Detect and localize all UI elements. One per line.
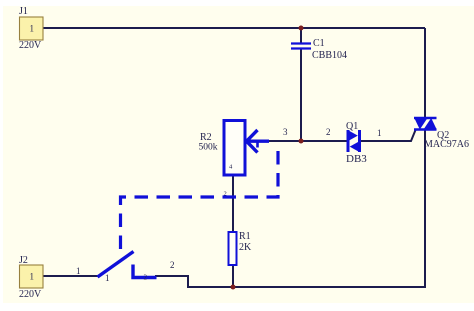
svg-text:3: 3 bbox=[283, 127, 288, 137]
wire C1 top lead bbox=[300, 28, 302, 43]
triac Q2 bbox=[414, 118, 437, 130]
svg-text:1: 1 bbox=[76, 266, 81, 276]
wire diac pin 1 to triac gate bbox=[359, 130, 416, 141]
capacitor C1 bbox=[291, 44, 311, 49]
switch right contact bbox=[133, 265, 157, 278]
wire right vertical to triac top bbox=[424, 28, 426, 118]
potentiometer R2 bbox=[224, 121, 269, 176]
wire R1 bottom to bottom rail bbox=[232, 264, 234, 287]
svg-text:MAC97A6: MAC97A6 bbox=[424, 139, 469, 150]
svg-text:J1: J1 bbox=[19, 6, 28, 17]
svg-text:R1: R1 bbox=[239, 231, 251, 242]
svg-text:1: 1 bbox=[30, 272, 35, 282]
junction top rail / C1 bbox=[299, 26, 304, 31]
svg-text:CBB104: CBB104 bbox=[312, 50, 347, 61]
svg-text:1: 1 bbox=[377, 128, 382, 138]
diac Q1 bbox=[348, 130, 360, 152]
connector J1 bbox=[20, 17, 44, 40]
svg-text:220V: 220V bbox=[19, 289, 42, 300]
wire triac bottom to bottom rail bbox=[424, 129, 426, 288]
switch S blade bbox=[98, 252, 134, 278]
junction gate net / C1 bbox=[299, 139, 304, 144]
wire C1 bottom lead to gate net bbox=[300, 49, 302, 141]
wire jog from switch level to bottom rail bbox=[187, 276, 189, 287]
resistor R1 bbox=[229, 232, 237, 265]
wire bottom rail bbox=[187, 286, 426, 288]
svg-text:J2: J2 bbox=[19, 255, 28, 266]
svg-text:220V: 220V bbox=[19, 40, 42, 51]
wire pot wiper to junction bbox=[268, 140, 301, 142]
wire junction to diac pin 2 bbox=[301, 140, 348, 142]
wire top net J1 to triac T2 bbox=[43, 27, 425, 29]
svg-text:Q1: Q1 bbox=[346, 121, 358, 132]
svg-text:1: 1 bbox=[30, 24, 35, 34]
svg-text:2K: 2K bbox=[239, 242, 252, 253]
wire switch right to jog bbox=[155, 275, 189, 277]
svg-text:1: 1 bbox=[105, 273, 110, 283]
wire pot bottom to R1 top bbox=[232, 176, 234, 233]
wire J2 to switch bbox=[43, 275, 99, 277]
svg-text:DB3: DB3 bbox=[346, 153, 367, 165]
connector J2 bbox=[20, 265, 44, 288]
svg-text:2: 2 bbox=[144, 274, 148, 282]
svg-text:C1: C1 bbox=[313, 38, 325, 49]
junction R1 / bottom rail bbox=[231, 285, 236, 290]
svg-text:2: 2 bbox=[170, 260, 175, 270]
svg-text:500k: 500k bbox=[199, 143, 218, 153]
svg-text:R2: R2 bbox=[200, 132, 212, 143]
svg-text:2: 2 bbox=[326, 127, 331, 137]
mechanical linkage dashed line bbox=[121, 151, 279, 250]
